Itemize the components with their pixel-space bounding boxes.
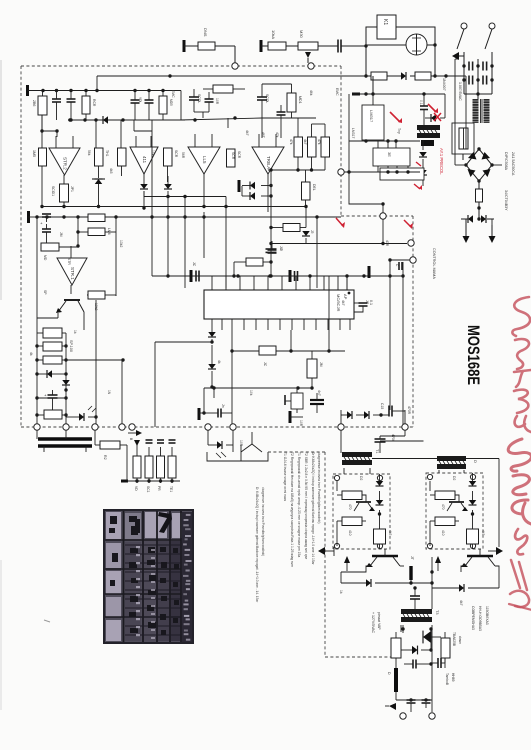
diode mid L2	[250, 192, 273, 200]
red arrow mark 2	[428, 104, 438, 113]
value label 47k-7	[275, 132, 279, 138]
wire smps mid rail	[344, 170, 420, 173]
capacitor sw-c	[469, 76, 473, 85]
connector circle 3 on bottom edge	[92, 424, 98, 430]
box1 resistor 4R7	[342, 517, 362, 536]
resistor SCID1	[51, 184, 74, 202]
svg-text:MD5: MD5	[169, 99, 173, 106]
svg-text:4k7: 4k7	[245, 130, 249, 136]
label control mama	[432, 248, 436, 279]
capacitor sw-b	[483, 62, 487, 71]
value label 10k-2	[151, 150, 155, 156]
capacitor topleft a	[52, 91, 61, 121]
value label EMC-11	[335, 88, 339, 96]
wire mains stub left	[95, 76, 98, 92]
diode smps d2 red-marked	[414, 170, 427, 190]
box2 resistor 4R7	[435, 517, 455, 536]
capacitor out mid a	[404, 660, 433, 669]
transistor Q5 small	[285, 388, 303, 413]
svg-text:YDL: YDL	[138, 97, 142, 103]
wire center rail c	[152, 212, 206, 276]
svg-text:ckagneewe incovea incn Pove: ckagneewe incovea incn Povedbr/gilwm wod…	[261, 487, 265, 556]
IC top pins	[212, 276, 347, 290]
switch column wires	[462, 52, 493, 94]
capacitor C-top	[338, 40, 366, 53]
value label STR-13	[67, 258, 71, 265]
wire bus 388	[204, 386, 312, 389]
value label 46T-6	[261, 132, 265, 138]
value label 4k5-1	[109, 168, 113, 174]
value label 46k-10	[309, 90, 313, 96]
svg-text:TamboB: TamboB	[445, 673, 449, 686]
fuse box	[452, 123, 474, 154]
diode sp left	[35, 370, 67, 378]
capacitor topleft d	[145, 91, 154, 121]
transistor Q1	[56, 300, 84, 330]
svg-text:R2: R2	[103, 455, 107, 460]
resistor bank c	[317, 137, 330, 170]
resistor bank vertical 3	[157, 440, 165, 491]
svg-text:LM317: LM317	[369, 110, 374, 123]
svg-text:SP.100: SP.100	[69, 340, 73, 352]
svg-text:10R: 10R	[299, 420, 303, 427]
diode mid L1	[250, 182, 273, 190]
svg-text:EMC: EMC	[171, 90, 175, 98]
wire scol c drop	[262, 84, 292, 118]
resistor 4k vertical	[307, 351, 323, 390]
terminal bar diode pair	[239, 180, 250, 196]
svg-text:HH89: HH89	[451, 673, 455, 682]
wire scol drop	[194, 112, 209, 118]
triac block	[207, 430, 268, 461]
diode smps d1 red-marked	[416, 140, 427, 168]
svg-text:ckagneewe incovea incn Pove: ckagneewe incovea incn Povedbr/gilwm wod…	[317, 452, 321, 523]
svg-text:STR.1: STR.1	[70, 267, 75, 280]
resistor bank a	[289, 137, 303, 170]
resistor mid h1	[78, 214, 116, 222]
svg-text:SCR: SCR	[174, 150, 178, 158]
value label 10k-20	[249, 390, 253, 396]
terminal circle sw1	[461, 23, 467, 29]
svg-text:JM: JM	[59, 232, 63, 237]
capacitor out mid b	[431, 658, 445, 668]
connector circle 6 on bottom edge	[205, 424, 211, 430]
resistor U2 right	[164, 148, 179, 182]
diode triac gate	[208, 430, 233, 458]
resistor MD horizontal	[41, 243, 78, 261]
mains transformer windings	[473, 99, 490, 123]
wire bridge sides	[455, 164, 502, 166]
capacitor out a	[407, 700, 416, 712]
svg-text:2A1 5AC50CA: 2A1 5AC50CA	[511, 152, 515, 176]
svg-text:J5: J5	[310, 230, 314, 234]
svg-text:56k: 56k	[87, 150, 91, 156]
svg-text:3E: 3E	[387, 152, 392, 157]
control bus rail	[271, 240, 414, 246]
optocoupler IC box	[364, 139, 410, 172]
box1 wires	[337, 481, 366, 546]
svg-text:DNS: DNS	[203, 28, 208, 37]
arrow connector left	[452, 52, 464, 60]
ground circle a	[396, 700, 406, 719]
svg-text:MD: MD	[43, 255, 47, 261]
power transistor Q9	[410, 549, 495, 571]
wire to dashed node	[382, 204, 384, 213]
wire amp out bus	[144, 191, 226, 197]
red arrow mark node	[336, 218, 345, 228]
box1 diode a	[376, 474, 384, 500]
resistor ic top	[232, 258, 271, 278]
node circle on dashed rail 2	[308, 63, 314, 69]
svg-text:47k: 47k	[317, 139, 321, 145]
resistor 13k2	[87, 291, 116, 310]
value label SCR-4	[231, 152, 235, 160]
wire 410 rail	[341, 410, 347, 424]
svg-text:pimawi VAP: pimawi VAP	[377, 612, 381, 630]
op-amp U4	[252, 134, 284, 212]
svg-text:10k: 10k	[151, 150, 155, 156]
wire amp row bus	[40, 205, 227, 208]
connector circle 2 on bottom edge	[63, 424, 69, 430]
dashed output boundary horizontal	[325, 656, 391, 658]
diode free a	[341, 579, 434, 587]
wire sp rails	[37, 318, 125, 427]
svg-text:T3: T3	[435, 610, 439, 614]
svg-text:D: D	[473, 460, 478, 463]
notes line 5	[311, 452, 315, 566]
node circle on dashed left smps	[338, 169, 351, 175]
capacitor smps a	[420, 94, 428, 125]
transformer T2	[437, 456, 478, 469]
wire center rail a	[134, 120, 154, 276]
svg-text:10k: 10k	[249, 390, 253, 396]
red X mark	[434, 113, 441, 121]
resistor TH1	[95, 148, 110, 178]
connector circle 1 on bottom edge	[34, 424, 40, 430]
diode out 2	[364, 411, 389, 419]
notes text column small	[255, 487, 265, 603]
svg-text:AY.1 PRECOL: AY.1 PRECOL	[439, 148, 444, 175]
value label 10R-8	[215, 98, 219, 105]
wire right rail drop	[388, 260, 404, 278]
zener mid x306	[302, 230, 314, 244]
capacitor SCOL a	[189, 89, 201, 112]
diode D-rail	[401, 72, 415, 80]
diode free b	[432, 572, 499, 592]
svg-text:470: 470	[348, 504, 352, 510]
diode smps top	[425, 94, 445, 122]
box2 wires	[430, 481, 459, 546]
resistor mid 227	[269, 224, 306, 232]
svg-text:1M5: 1M5	[32, 150, 36, 157]
svg-text:10kA: 10kA	[271, 30, 276, 39]
wire K1 branch up	[366, 27, 377, 46]
svg-text:COBPEMGHA3: COBPEMGHA3	[471, 606, 475, 630]
terminal cap mid	[368, 266, 371, 278]
svg-text:down: down	[458, 636, 462, 644]
svg-text:T2 Regnpowali Hecciwe na U: T2 Regnpowali Hecciwe na UBx5j na wypcyr…	[290, 452, 294, 567]
resistor below IC	[230, 346, 345, 367]
box1 resistor 4k7	[374, 517, 393, 549]
value label SP-15	[43, 290, 47, 295]
wire out bottom	[396, 698, 432, 701]
svg-text:TE1: TE1	[169, 486, 173, 492]
LED indicator	[66, 406, 98, 421]
wire mid links	[37, 217, 116, 318]
label right notes power	[445, 606, 489, 686]
board outline dashed bottom edge	[21, 426, 413, 428]
svg-text:LM317: LM317	[351, 128, 355, 138]
wire T1 to box1	[344, 468, 370, 474]
capacitor 470k	[372, 434, 395, 448]
red arrow mark 1	[390, 112, 402, 123]
diode on top bus	[103, 116, 113, 124]
notes line 6	[317, 452, 321, 523]
node circle right rail	[388, 257, 416, 263]
label transformer	[458, 82, 462, 101]
scan speck	[44, 620, 50, 622]
resistor RCL	[476, 189, 483, 213]
capacitor topleft c	[131, 91, 143, 121]
box1 corner circles	[334, 475, 382, 548]
wire mid rails down	[96, 330, 122, 427]
svg-text:SCR: SCR	[237, 151, 241, 159]
program label table	[103, 509, 194, 644]
wire cap link	[380, 436, 405, 453]
bridge rectifier diamond	[464, 147, 493, 182]
op-amp U2	[130, 136, 158, 184]
svg-text:CONTROL MAMA: CONTROL MAMA	[432, 248, 436, 279]
resistor mid h2	[76, 228, 116, 236]
svg-text:SCID1: SCID1	[51, 186, 55, 196]
wire bridge bottom	[478, 181, 480, 189]
arrow connector B	[128, 430, 142, 441]
value label D2-30	[359, 476, 363, 480]
wire bank common	[127, 479, 180, 482]
transformer T1	[342, 449, 379, 465]
svg-text:Tny: Tny	[397, 128, 401, 134]
notes line 4	[304, 452, 308, 559]
wire x306 down	[304, 205, 307, 228]
value label EMC-9	[171, 90, 175, 98]
wire bridge top	[464, 76, 466, 149]
label right column connectors	[504, 152, 515, 211]
svg-text:D: K4Bx24x2Q I inckupi war: D: K4Bx24x2Q I inckupi warmare gderval B…	[255, 487, 259, 603]
capacitor thick mid	[310, 393, 324, 413]
svg-text:10R: 10R	[239, 440, 243, 447]
svg-text:SCOL: SCOL	[197, 94, 201, 103]
resistor SP stack 3	[35, 340, 73, 364]
svg-text:1N4007: 1N4007	[442, 78, 446, 91]
wire top feed bus	[28, 85, 182, 96]
svg-text:1N: 1N	[107, 390, 111, 395]
svg-text:D2: D2	[359, 476, 363, 480]
svg-text:HH-H OO9B5A3: HH-H OO9B5A3	[478, 606, 482, 631]
arrow out	[385, 703, 396, 710]
svg-text:1.007/5VAC: 1.007/5VAC	[458, 82, 462, 101]
wire left elbow	[37, 300, 96, 330]
wire below node	[382, 219, 384, 243]
svg-text:46k: 46k	[309, 90, 313, 96]
value label JC-23	[365, 300, 369, 305]
driver module box 2 dashed	[426, 473, 483, 549]
capacitor elec a	[39, 214, 51, 225]
wire K1 to right	[396, 27, 435, 45]
terminal circle sw2	[489, 23, 495, 29]
regulator LM317 box	[362, 105, 384, 140]
diode out 1	[347, 411, 364, 419]
capacitor center	[410, 583, 432, 609]
svg-text:4k: 4k	[217, 360, 221, 364]
svg-text:STR: STR	[67, 258, 71, 265]
svg-text:LL5: LL5	[202, 156, 207, 164]
notes line 3	[297, 452, 301, 557]
wire top bus right segment	[180, 116, 316, 121]
ground circle b	[429, 713, 435, 719]
svg-text:JP1: JP1	[70, 186, 74, 192]
wire bus 351 feeds	[232, 276, 329, 427]
smps transformer primary	[417, 125, 440, 146]
value label 1k-32	[339, 590, 343, 594]
resistor topleft e	[159, 91, 173, 121]
svg-text:M30: M30	[299, 30, 304, 39]
resistor R top-b	[261, 30, 298, 52]
value label 47R-24	[385, 240, 389, 247]
svg-text:T1 GJ4-6 bvase snage ov: T1 GJ4-6 bvase snage ovmi naxs	[283, 452, 287, 501]
title MOS168E	[464, 325, 482, 385]
svg-text:Dr K48x24x2Q I inckup warm: Dr K48x24x2Q I inckup warmare gderval 6a…	[311, 452, 315, 566]
suppressor capacitor block	[37, 430, 92, 452]
board outline dashed right edge	[412, 216, 414, 427]
svg-text:13k2: 13k2	[119, 240, 123, 247]
wire center vertical x168	[166, 197, 169, 278]
capacitor SCOL c	[257, 90, 269, 110]
wire center vertical x317	[316, 217, 318, 288]
board outline dashed border top edge	[21, 65, 341, 67]
svg-text:DEL: DEL	[312, 184, 316, 191]
notes line 2	[290, 452, 294, 567]
value label 1k-16	[73, 330, 77, 334]
capacitor SCOL b	[205, 92, 214, 112]
svg-text:410: 410	[441, 530, 445, 536]
box1 diode b	[376, 500, 384, 517]
svg-text:470R: 470R	[407, 406, 411, 415]
resistor cluster h	[203, 85, 245, 93]
control IC box small	[380, 168, 424, 180]
resistor out v	[391, 625, 401, 668]
wire T2 feed	[380, 440, 424, 442]
value label 4n7-21	[317, 390, 321, 396]
box1 transistor small	[354, 502, 375, 511]
value label 10R-29	[239, 440, 243, 447]
capacitor ic top	[268, 241, 284, 253]
svg-text:56R: 56R	[181, 152, 185, 159]
wire smps feed	[371, 76, 374, 105]
resistor 1M5	[32, 148, 47, 206]
wire smps top rail	[349, 92, 445, 172]
power transistor Q8	[344, 549, 400, 571]
wire motor right	[427, 43, 437, 46]
resistor out v2	[441, 632, 462, 668]
box1 resistor 470	[342, 491, 362, 510]
svg-text:4k7: 4k7	[388, 530, 392, 535]
dashed output boundary vertical	[324, 452, 326, 657]
relay K1 box	[377, 15, 396, 39]
red arrow mark low	[404, 220, 413, 229]
svg-text:1k: 1k	[73, 330, 77, 334]
svg-text:4k7: 4k7	[341, 300, 345, 306]
motor M circle	[406, 34, 427, 55]
value label 4k7-22	[341, 300, 345, 306]
svg-text:470k: 470k	[391, 434, 395, 442]
svg-text:EMC: EMC	[335, 88, 339, 96]
svg-text:MOS168E: MOS168E	[464, 325, 482, 385]
resistor DNS top	[184, 28, 235, 52]
wire mid bus B	[35, 215, 341, 218]
wire T2 to box2	[439, 470, 464, 473]
capacitor mid top	[277, 105, 286, 138]
diode sp down	[62, 380, 70, 392]
svg-text:10R: 10R	[215, 98, 219, 105]
box2 transistor small	[447, 502, 468, 511]
wire center power rail	[341, 557, 434, 583]
node circle step	[380, 213, 386, 219]
wire power emitters	[341, 566, 499, 572]
zener D-u3	[164, 176, 172, 198]
wire sw bottom join	[464, 92, 492, 99]
connector circle 9 on bottom edge	[402, 424, 408, 430]
svg-text:4k7: 4k7	[459, 600, 463, 606]
wire verticals to amp row	[42, 120, 134, 148]
value label JM-12	[59, 232, 63, 237]
driver module box 1 dashed	[333, 474, 390, 549]
zener below TH1	[92, 179, 105, 208]
connector circle 4 on bottom edge	[119, 424, 125, 430]
svg-text:DIP/C508A: DIP/C508A	[504, 152, 508, 171]
svg-text:SP: SP	[43, 290, 47, 295]
wire transformer link	[372, 459, 499, 548]
wire topleft right vertical	[180, 91, 182, 121]
red label AY1 PRECOL	[439, 148, 444, 175]
capacitor sp elec	[35, 390, 67, 415]
dashed link to transformer	[268, 451, 325, 453]
capacitor sw-d	[483, 76, 487, 85]
value label 10R-28	[299, 420, 303, 427]
svg-text:RCR: RCR	[92, 99, 96, 107]
value label LM317-25	[351, 128, 355, 138]
resistor SP stack 1	[37, 328, 66, 338]
terminal bar row4	[121, 445, 128, 481]
board outline dashed border right-upper edge	[340, 66, 342, 216]
capacitor sw-a	[469, 62, 473, 71]
inductor small black	[409, 566, 412, 583]
svg-text:0.1: 0.1	[419, 100, 423, 105]
wire bus 342	[155, 342, 212, 427]
wire left top stub	[42, 129, 59, 132]
wire u4 tops	[228, 118, 262, 138]
scan edge left	[0, 60, 2, 710]
wire right vertical long	[402, 276, 404, 427]
wire from DNS to border node	[234, 46, 236, 63]
svg-text:411: 411	[142, 156, 147, 164]
terminal bar midbot	[290, 411, 303, 423]
svg-text:4k7: 4k7	[481, 530, 485, 535]
value label 0.1-27	[419, 100, 423, 105]
connector circle 8 on bottom edge	[338, 424, 344, 430]
board outline dashed border left edge	[20, 66, 22, 427]
box2 corner circles	[427, 474, 475, 548]
value label 1N-18	[107, 390, 111, 395]
